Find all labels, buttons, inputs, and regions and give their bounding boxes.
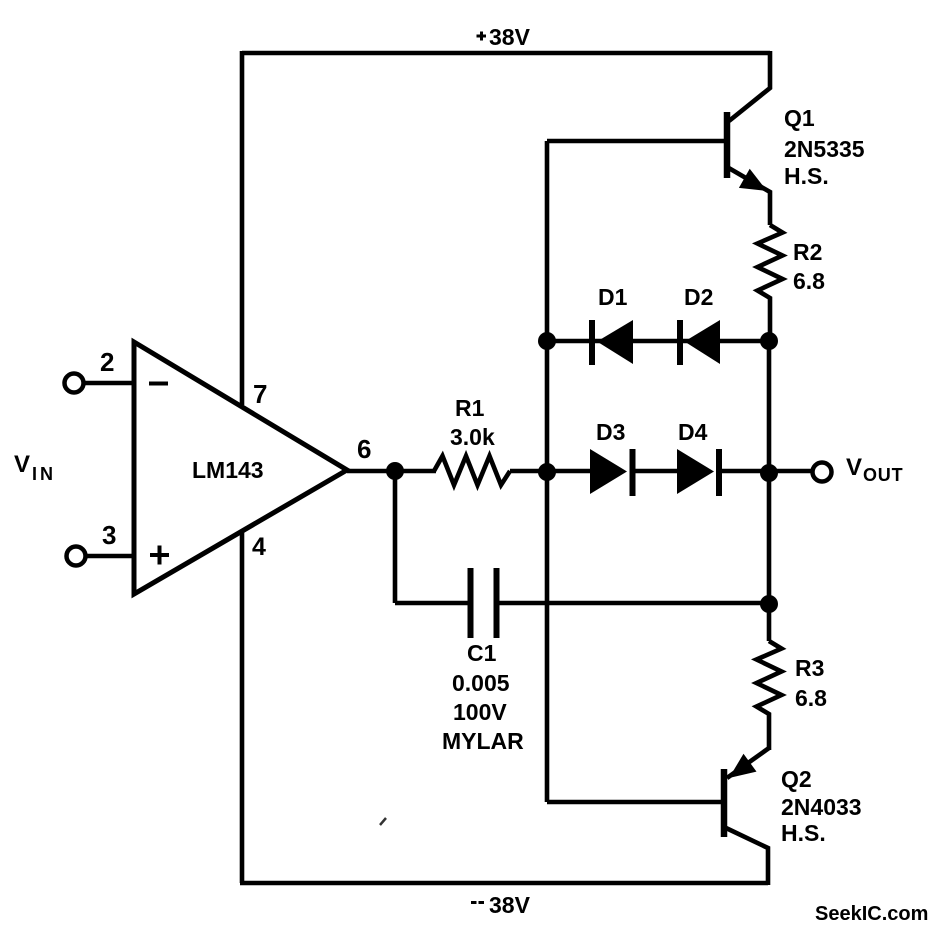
svg-text:Q1: Q1 xyxy=(784,105,815,131)
svg-text:3.0k: 3.0k xyxy=(450,424,495,450)
svg-text:V: V xyxy=(14,451,30,478)
svg-text:R3: R3 xyxy=(795,655,824,681)
svg-text:7: 7 xyxy=(253,379,267,409)
svg-text:D1: D1 xyxy=(598,284,628,310)
svg-text:D3: D3 xyxy=(596,419,625,445)
svg-text:D4: D4 xyxy=(678,419,708,445)
svg-text:6.8: 6.8 xyxy=(793,268,825,294)
svg-text:MYLAR: MYLAR xyxy=(442,728,524,754)
svg-text:Q2: Q2 xyxy=(781,766,812,792)
svg-text:4: 4 xyxy=(252,533,266,561)
svg-text:2: 2 xyxy=(100,347,114,377)
svg-text:V: V xyxy=(846,454,862,481)
svg-text:38V: 38V xyxy=(489,24,531,50)
svg-text:H.S.: H.S. xyxy=(781,820,826,846)
svg-text:SeekIC.com: SeekIC.com xyxy=(815,903,928,925)
svg-text:D2: D2 xyxy=(684,284,713,310)
svg-text:LM143: LM143 xyxy=(192,457,264,483)
svg-text:IN: IN xyxy=(32,464,56,484)
svg-text:H.S.: H.S. xyxy=(784,163,829,189)
svg-text:C1: C1 xyxy=(467,640,497,666)
svg-text:6: 6 xyxy=(357,434,371,464)
svg-text:38V: 38V xyxy=(489,892,531,918)
svg-text:2N5335: 2N5335 xyxy=(784,136,865,162)
svg-text:R2: R2 xyxy=(793,239,822,265)
svg-text:OUT: OUT xyxy=(863,465,903,485)
svg-text:100V: 100V xyxy=(453,699,507,725)
svg-text:2N4033: 2N4033 xyxy=(781,794,862,820)
svg-text:3: 3 xyxy=(102,520,116,550)
svg-text:0.005: 0.005 xyxy=(452,670,510,696)
svg-text:6.8: 6.8 xyxy=(795,685,827,711)
svg-text:R1: R1 xyxy=(455,395,485,421)
